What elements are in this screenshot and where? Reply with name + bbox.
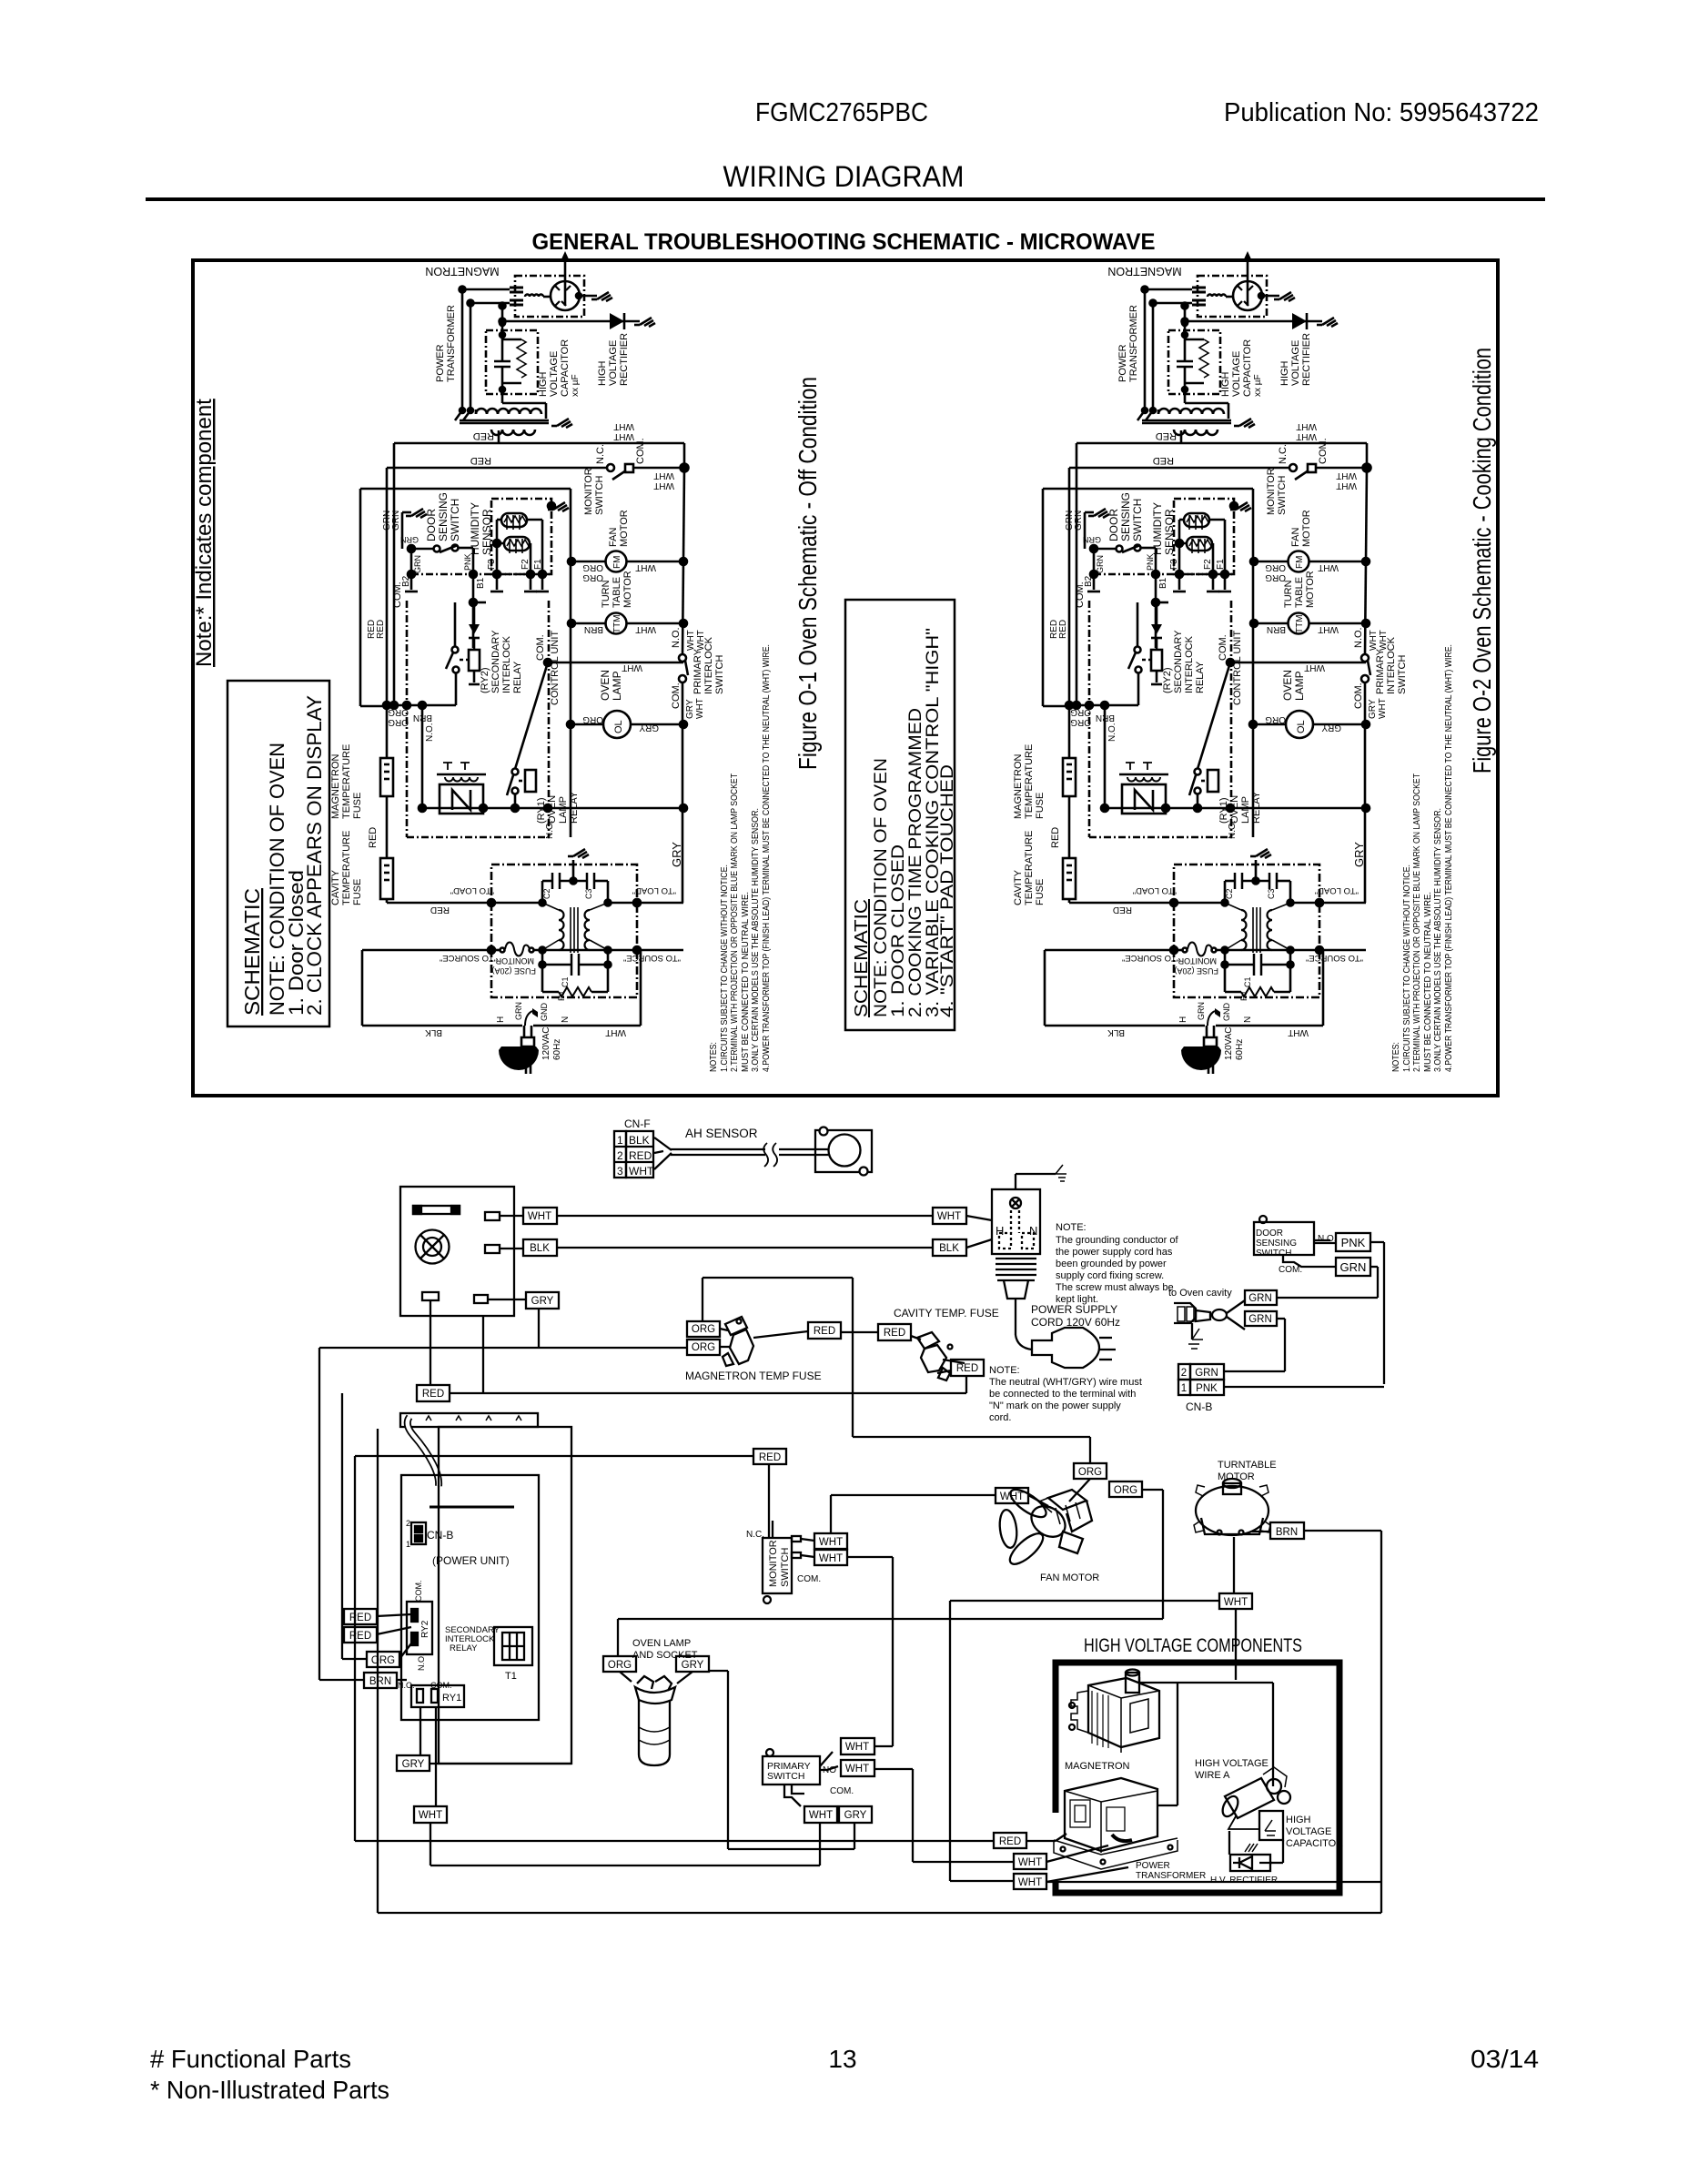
svg-text:The screw must always be: The screw must always be — [1056, 1282, 1174, 1293]
svg-text:PNK: PNK — [1196, 1383, 1218, 1394]
svg-text:WHT: WHT — [845, 1764, 869, 1774]
svg-text:CN-B: CN-B — [427, 1529, 453, 1542]
svg-text:COM.: COM. — [414, 1581, 423, 1603]
svg-text:POWER SUPPLY: POWER SUPPLY — [1031, 1303, 1117, 1316]
svg-text:TURNTABLE: TURNTABLE — [1218, 1460, 1277, 1471]
svg-text:NOTE:: NOTE: — [1056, 1222, 1087, 1233]
svg-text:# Functional Parts: # Functional Parts — [150, 2045, 351, 2073]
svg-text:RELAY: RELAY — [450, 1643, 478, 1653]
svg-text:AH SENSOR: AH SENSOR — [685, 1127, 758, 1140]
svg-text:WHT: WHT — [528, 1211, 551, 1222]
svg-text:WHT: WHT — [809, 1810, 833, 1821]
svg-text:HIGH: HIGH — [1286, 1815, 1311, 1825]
svg-text:3.ONLY CERTAIN MODELS USE THE: 3.ONLY CERTAIN MODELS USE THE ABSOLUTE H… — [750, 808, 761, 1072]
svg-text:WHT: WHT — [1224, 1597, 1248, 1608]
svg-text:RED: RED — [422, 1389, 444, 1400]
svg-text:COM.: COM. — [830, 1786, 854, 1796]
svg-text:BLK: BLK — [530, 1243, 550, 1254]
svg-text:WHT: WHT — [819, 1537, 843, 1548]
svg-text:RED: RED — [629, 1149, 652, 1162]
svg-text:SCHEMATIC: SCHEMATIC — [852, 899, 872, 1017]
svg-text:1: 1 — [617, 1134, 623, 1147]
svg-text:WHT: WHT — [845, 1742, 869, 1753]
svg-text:GRY: GRY — [402, 1759, 425, 1770]
svg-text:Figure O-1 Oven Schematic - Of: Figure O-1 Oven Schematic - Off Conditio… — [793, 377, 822, 770]
svg-text:WHT: WHT — [937, 1211, 961, 1222]
svg-text:GRY: GRY — [682, 1660, 704, 1671]
svg-text:WHT: WHT — [1018, 1877, 1042, 1888]
svg-text:3.ONLY CERTAIN MODELS USE THE: 3.ONLY CERTAIN MODELS USE THE ABSOLUTE H… — [1432, 808, 1443, 1072]
svg-text:NOTES:: NOTES: — [708, 1042, 719, 1072]
svg-text:SWITCH: SWITCH — [1256, 1249, 1291, 1259]
svg-text:CAPACITOR: CAPACITOR — [1286, 1838, 1343, 1849]
svg-text:ORG: ORG — [371, 1655, 395, 1666]
svg-text:RED: RED — [349, 1631, 371, 1642]
svg-text:COM.: COM. — [797, 1574, 821, 1584]
svg-text:H: H — [996, 1224, 1004, 1238]
svg-text:The grounding conductor of: The grounding conductor of — [1056, 1235, 1178, 1246]
svg-text:RED: RED — [884, 1328, 905, 1339]
svg-text:2. COOKING TIME PROGRAMMED: 2. COOKING TIME PROGRAMMED — [906, 708, 925, 1017]
svg-text:CN-B: CN-B — [1186, 1400, 1212, 1413]
svg-text:to Oven cavity: to Oven cavity — [1168, 1288, 1232, 1299]
svg-text:RED: RED — [999, 1836, 1021, 1847]
svg-text:2: 2 — [1181, 1368, 1187, 1379]
svg-text:OVEN LAMP: OVEN LAMP — [632, 1638, 691, 1649]
svg-text:HIGH VOLTAGE COMPONENTS: HIGH VOLTAGE COMPONENTS — [1084, 1635, 1302, 1656]
svg-text:2.TERMINAL WITH PROJECTION OR: 2.TERMINAL WITH PROJECTION OR OPPOSITE B… — [1411, 773, 1422, 1072]
svg-text:"N" mark on the power supply: "N" mark on the power supply — [989, 1400, 1121, 1411]
svg-text:WHT: WHT — [629, 1165, 654, 1178]
svg-text:WHT: WHT — [419, 1810, 442, 1821]
svg-text:4.POWER TRANSFORMER TOP (FINIS: 4.POWER TRANSFORMER TOP (FINISH LEAD) TE… — [1443, 644, 1454, 1072]
svg-text:RED: RED — [814, 1326, 835, 1337]
svg-text:POWER: POWER — [1136, 1861, 1170, 1871]
svg-text:2: 2 — [406, 1519, 410, 1528]
svg-text:MAGNETRON: MAGNETRON — [1065, 1761, 1130, 1772]
svg-text:SWITCH: SWITCH — [780, 1548, 791, 1587]
svg-text:BLK: BLK — [629, 1134, 650, 1147]
svg-text:WIRING DIAGRAM: WIRING DIAGRAM — [723, 160, 965, 193]
svg-text:RED: RED — [956, 1363, 978, 1374]
svg-text:TRANSFORMER: TRANSFORMER — [1136, 1871, 1206, 1881]
svg-text:GRN: GRN — [1195, 1368, 1218, 1379]
svg-text:BRN: BRN — [369, 1676, 391, 1687]
svg-text:NOTE: CONDITION OF OVEN: NOTE: CONDITION OF OVEN — [872, 758, 891, 1017]
svg-text:RED: RED — [759, 1452, 781, 1463]
svg-text:BLK: BLK — [939, 1243, 959, 1254]
svg-text:4.POWER TRANSFORMER TOP (FINIS: 4.POWER TRANSFORMER TOP (FINISH LEAD) TE… — [761, 644, 772, 1072]
svg-text:The neutral (WHT/GRY) wire mus: The neutral (WHT/GRY) wire must — [989, 1377, 1142, 1388]
svg-text:ORG: ORG — [608, 1660, 632, 1671]
svg-text:Note:* Indicates component: Note:* Indicates component — [192, 399, 217, 667]
svg-text:ORG: ORG — [692, 1342, 715, 1353]
svg-text:FAN MOTOR: FAN MOTOR — [1040, 1572, 1099, 1583]
svg-text:GRN: GRN — [1340, 1260, 1367, 1274]
svg-text:GRN: GRN — [1248, 1314, 1272, 1325]
svg-text:GRN: GRN — [1248, 1293, 1272, 1304]
svg-text:N: N — [1029, 1224, 1037, 1238]
svg-text:N.O.: N.O. — [417, 1653, 426, 1671]
svg-text:AND SOCKET: AND SOCKET — [632, 1650, 698, 1661]
svg-text:13: 13 — [828, 2045, 856, 2073]
svg-text:NOTES:: NOTES: — [1390, 1042, 1401, 1072]
svg-text:RY1: RY1 — [442, 1693, 461, 1704]
svg-text:SCHEMATIC: SCHEMATIC — [240, 888, 264, 1016]
svg-text:ORG: ORG — [1114, 1485, 1137, 1496]
svg-text:VOLTAGE: VOLTAGE — [1286, 1826, 1331, 1837]
svg-text:2. CLOCK APPEARS ON DISPLAY: 2. CLOCK APPEARS ON DISPLAY — [303, 695, 326, 1016]
svg-text:PNK: PNK — [1341, 1236, 1366, 1249]
svg-text:* Non-Illustrated Parts: * Non-Illustrated Parts — [150, 2076, 389, 2104]
svg-text:Figure O-2 Oven Schematic - Co: Figure O-2 Oven Schematic - Cooking Cond… — [1468, 348, 1496, 773]
svg-text:WIRE A: WIRE A — [1195, 1770, 1230, 1781]
svg-text:RY2: RY2 — [420, 1620, 430, 1638]
svg-text:2.TERMINAL WITH PROJECTION OR: 2.TERMINAL WITH PROJECTION OR OPPOSITE B… — [729, 773, 740, 1072]
svg-text:T1: T1 — [505, 1671, 517, 1682]
svg-text:MAGNETRON TEMP FUSE: MAGNETRON TEMP FUSE — [685, 1370, 822, 1382]
svg-text:03/14: 03/14 — [1471, 2045, 1539, 2073]
svg-text:FGMC2765PBC: FGMC2765PBC — [755, 98, 928, 127]
svg-text:3: 3 — [617, 1165, 623, 1178]
svg-text:GRY: GRY — [531, 1296, 554, 1307]
svg-text:MONITOR: MONITOR — [768, 1540, 779, 1587]
svg-text:H.V. RECTIFIER: H.V. RECTIFIER — [1210, 1876, 1278, 1886]
svg-text:cord.: cord. — [989, 1412, 1011, 1423]
svg-text:(POWER UNIT): (POWER UNIT) — [432, 1554, 510, 1567]
svg-text:the power supply cord has: the power supply cord has — [1056, 1247, 1173, 1258]
svg-text:be connected to the terminal w: be connected to the terminal with — [989, 1389, 1136, 1400]
svg-text:SWITCH: SWITCH — [767, 1771, 804, 1782]
svg-text:SENSING: SENSING — [1256, 1239, 1297, 1249]
svg-text:NOTE:: NOTE: — [989, 1365, 1020, 1376]
svg-text:CN-F: CN-F — [624, 1117, 651, 1130]
svg-text:WHT: WHT — [819, 1553, 843, 1564]
svg-text:GRY: GRY — [844, 1810, 867, 1821]
svg-text:CAVITY TEMP. FUSE: CAVITY TEMP. FUSE — [894, 1307, 999, 1319]
svg-text:2: 2 — [617, 1149, 623, 1162]
svg-text:GENERAL TROUBLESHOOTING SCHEMA: GENERAL TROUBLESHOOTING SCHEMATIC - MICR… — [532, 229, 1156, 255]
svg-text:Publication No: 5995643722: Publication No: 5995643722 — [1224, 98, 1539, 127]
svg-text:1. DOOR CLOSED: 1. DOOR CLOSED — [889, 844, 908, 1017]
svg-text:1: 1 — [406, 1540, 410, 1549]
svg-text:supply cord fixing screw.: supply cord fixing screw. — [1056, 1270, 1164, 1281]
svg-text:HIGH VOLTAGE: HIGH VOLTAGE — [1195, 1758, 1269, 1769]
svg-text:been grounded by power: been grounded by power — [1056, 1259, 1167, 1269]
svg-text:WHT: WHT — [1018, 1857, 1042, 1868]
svg-text:DOOR: DOOR — [1256, 1228, 1283, 1239]
svg-text:BRN: BRN — [1276, 1527, 1298, 1538]
svg-text:1: 1 — [1181, 1383, 1187, 1394]
svg-text:COM.: COM. — [1279, 1265, 1302, 1275]
svg-text:ORG: ORG — [692, 1324, 715, 1335]
svg-text:ORG: ORG — [1078, 1467, 1102, 1478]
svg-text:RED: RED — [349, 1613, 371, 1623]
